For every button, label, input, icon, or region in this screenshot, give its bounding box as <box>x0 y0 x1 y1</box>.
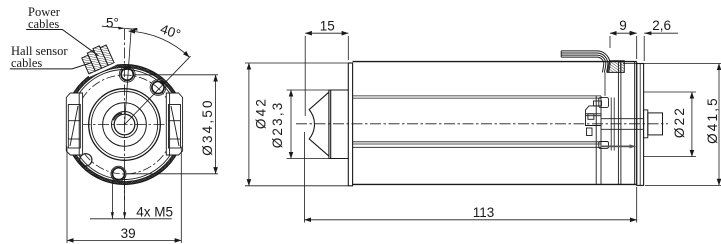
5 deg dimension <box>102 26 138 31</box>
svg-text:cables: cables <box>11 56 42 70</box>
center boss circle <box>103 103 147 147</box>
svg-text:Ø23,3: Ø23,3 <box>270 101 285 149</box>
stator lines bottom <box>353 142 601 148</box>
M5 hole lower-left <box>80 154 92 166</box>
hall block <box>586 106 602 126</box>
right tab <box>166 93 182 155</box>
right flat line <box>180 105 182 145</box>
dia41,5 dimension <box>623 64 721 186</box>
rim band inner edge <box>68 68 182 182</box>
white-out left flat <box>60 93 68 156</box>
15 dimension <box>305 33 348 116</box>
power cables leader <box>26 30 98 56</box>
M5 hole top <box>119 66 135 82</box>
lower stub <box>587 128 593 136</box>
horizontal centerline <box>61 124 190 126</box>
rear face lines <box>635 62 637 185</box>
stator lines top <box>353 96 601 98</box>
svg-text:2,6: 2,6 <box>652 18 671 33</box>
bracket top box <box>599 97 609 107</box>
rear cover dia41.5 <box>637 64 644 186</box>
snap ring arc <box>113 113 122 120</box>
vertical centerline <box>124 29 126 200</box>
svg-text:Ø41,5: Ø41,5 <box>705 96 720 144</box>
dia 34.50 dimension <box>126 75 218 174</box>
nose dome <box>309 90 331 159</box>
svg-text:cables: cables <box>28 17 59 31</box>
brush plate verticals <box>611 98 614 151</box>
boss ring outer <box>89 89 161 161</box>
4x M5 dimension <box>90 181 172 219</box>
grease line <box>601 145 633 147</box>
39 dimension <box>67 147 181 244</box>
bracket bottom box <box>599 142 609 149</box>
left tab <box>66 93 82 155</box>
svg-text:15: 15 <box>320 18 335 33</box>
dia23.3 dimension <box>287 90 330 159</box>
body tube outline <box>353 62 637 185</box>
M5 hole bottom <box>111 166 126 181</box>
dia42 dimension <box>245 63 348 186</box>
dia22 dimension <box>644 92 696 157</box>
rear stub nut <box>648 113 663 135</box>
113 dimension <box>305 132 637 223</box>
cable connector bundle on rim <box>79 41 117 77</box>
svg-text:5°: 5° <box>106 16 119 31</box>
rim inner circle <box>70 70 180 180</box>
svg-text:4x M5: 4x M5 <box>136 205 173 220</box>
rear stub washer <box>644 110 648 138</box>
4 deg hole axis line <box>125 29 132 125</box>
boss ring inner <box>91 91 157 157</box>
44 deg radial line <box>125 56 191 124</box>
M5 hole upper-right <box>150 80 166 96</box>
rear bracket verticals <box>596 96 601 184</box>
shaft chamfer circle <box>112 112 138 138</box>
shaft hole circle <box>114 114 135 135</box>
bolt circle dash-dot <box>75 75 174 174</box>
white-out right flat <box>181 93 190 156</box>
40 deg dimension arc <box>129 31 190 57</box>
svg-text:Ø42: Ø42 <box>254 97 269 129</box>
tube rear seam <box>618 62 621 185</box>
horizontal centerline right view <box>296 123 668 125</box>
svg-text:113: 113 <box>473 205 495 220</box>
hall leader <box>10 63 92 69</box>
cable strip on top <box>561 51 624 96</box>
rear shaft lines <box>601 119 644 130</box>
9 dimension <box>610 33 637 59</box>
left flat line <box>67 105 69 145</box>
nose cylinder dia23.3 <box>329 90 348 159</box>
hall block top pin <box>594 101 602 106</box>
outer circle <box>65 65 185 185</box>
svg-text:Ø34,50: Ø34,50 <box>200 98 215 155</box>
svg-text:Ø22: Ø22 <box>672 106 687 138</box>
rim hatch strokes <box>65 65 185 185</box>
svg-text:9: 9 <box>619 18 627 33</box>
label Hall sensor cables <box>11 44 68 70</box>
front plate dia42 <box>348 63 352 186</box>
2,6 dimension <box>630 31 679 61</box>
svg-text:39: 39 <box>121 226 136 241</box>
label Power cables <box>28 5 61 31</box>
